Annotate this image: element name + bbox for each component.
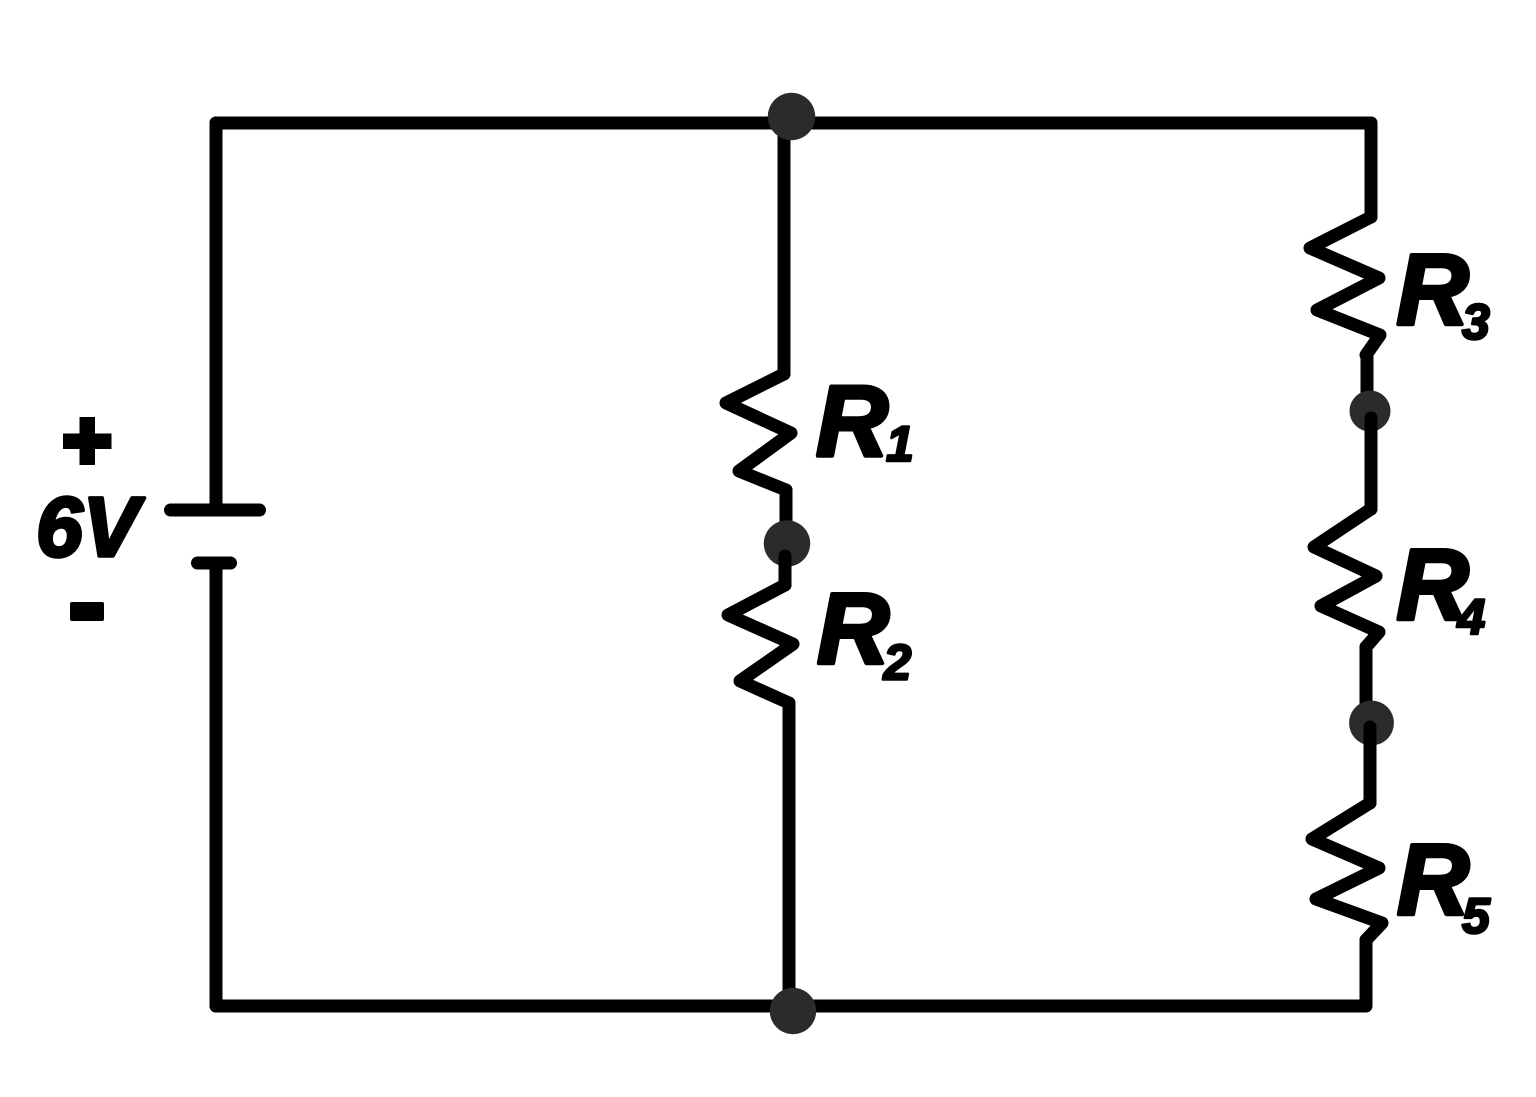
svg-text:2: 2 — [883, 635, 912, 691]
svg-text:R: R — [1397, 234, 1469, 346]
resistor R4 (zigzag body) — [1314, 509, 1379, 647]
node: junction between R1 and R2 — [764, 520, 810, 566]
wire: left vertical segment from battery + plate up to top-left corner — [210, 123, 223, 510]
svg-text:1: 1 — [886, 416, 914, 472]
resistor R5 (zigzag body) — [1312, 803, 1382, 940]
svg-text:6V: 6V — [36, 480, 145, 574]
wire: middle branch top lead from top rail down to R1 — [778, 123, 791, 374]
svg-text:R: R — [1397, 824, 1469, 936]
battery V1 top plate (+, long plate) — [171, 504, 260, 517]
label: + polarity of battery V1 — [63, 417, 112, 465]
node: junction between R4 and R5 — [1349, 701, 1394, 746]
resistor R2 (zigzag body) — [728, 585, 793, 703]
svg-text:5: 5 — [1462, 888, 1491, 944]
wire: middle branch bottom lead from R2 down to bottom rail — [783, 703, 796, 1006]
svg-text:R: R — [817, 573, 889, 685]
label: R3 designator — [1397, 234, 1491, 350]
svg-text:R: R — [816, 366, 888, 478]
label: R5 designator — [1397, 824, 1491, 944]
resistor R1 (zigzag body) — [726, 374, 791, 490]
label: - polarity of battery V1 — [70, 602, 104, 621]
node: bottom junction of middle branch with bottom rail — [770, 988, 816, 1034]
label: R2 designator — [817, 573, 912, 691]
wire: lead from R3/R4 junction node down to R4 — [1365, 418, 1378, 509]
wire: lead from R4/R5 junction node down to R5 — [1364, 727, 1377, 803]
wire: lead from R1 down to middle junction node — [780, 490, 793, 538]
wire: bottom horizontal rail from bottom-left corner to bottom-right corner — [216, 1000, 1365, 1013]
wire: lead from R5 down to bottom-right corner — [1360, 940, 1373, 1006]
wire: left vertical segment from battery - plate down to bottom-left corner — [210, 563, 223, 1006]
wire: right branch top lead from top-right corner down to R3 — [1365, 123, 1378, 217]
node: top junction of middle branch with top rail — [768, 93, 815, 140]
label: R1 designator — [816, 366, 914, 478]
svg-text:4: 4 — [1457, 589, 1486, 645]
wire: top horizontal rail from top-left corner to top-right corner — [216, 117, 1371, 130]
node: junction between R3 and R4 — [1350, 391, 1391, 432]
label: R4 designator — [1397, 529, 1486, 645]
battery V1 bottom plate (-, short plate) — [198, 557, 231, 570]
wire: lead from middle junction node down to R2 — [779, 556, 792, 585]
resistor R3 (zigzag body) — [1310, 217, 1380, 355]
wire: lead from R3 down to R3/R4 junction node — [1361, 355, 1374, 406]
wire: lead from R4 down to R4/R5 junction node — [1360, 647, 1373, 718]
svg-text:3: 3 — [1462, 294, 1490, 350]
